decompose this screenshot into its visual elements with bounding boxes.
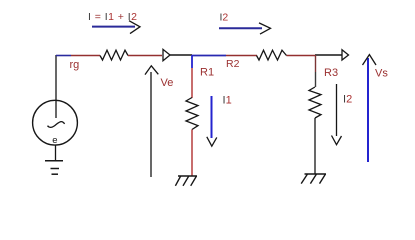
wire (node B rightwards, black) — [315, 54, 342, 56]
current arrow I — [92, 21, 140, 34]
resistor R2 — [257, 50, 287, 60]
ground (below R3, hatched) — [301, 174, 326, 184]
current direction triangle marker — [163, 49, 170, 60]
wire (triangle to node A, black) — [170, 54, 192, 56]
svg-text:rg: rg — [70, 59, 80, 71]
wire (R1 branch red, upper) — [191, 68, 193, 98]
ground (below source) — [45, 161, 63, 174]
svg-text:Ve: Ve — [161, 77, 174, 89]
current arrow I2 (top) — [219, 23, 271, 34]
svg-text:Vs: Vs — [375, 68, 388, 80]
svg-text:I1: I1 — [223, 95, 232, 107]
wire (R2 to node B, red) — [287, 55, 316, 57]
svg-text:R2: R2 — [226, 58, 240, 70]
svg-text:e: e — [52, 135, 57, 146]
wire (corner blue segment) — [56, 55, 71, 57]
wire (rg to triangle, red) — [128, 55, 162, 57]
ground (below R1, hatched) — [175, 176, 197, 186]
current arrow I1 — [207, 96, 217, 146]
voltage arrow Vs — [363, 55, 377, 162]
wire (R1 branch blue segment) — [191, 55, 193, 68]
wire (to R2, red) — [226, 55, 257, 57]
wire (R1 branch red, lower) — [191, 130, 193, 177]
resistor R1 — [186, 98, 198, 130]
svg-text:I2: I2 — [343, 94, 352, 106]
wire (source top to corner, vertical) — [55, 55, 57, 118]
svg-text:I2: I2 — [220, 12, 229, 24]
wire (source bottom) — [55, 145, 57, 160]
voltage source e — [33, 100, 78, 146]
wire (R3 branch red, upper) — [315, 55, 317, 72]
current arrow I2 (right) — [332, 84, 342, 145]
svg-text:R1: R1 — [200, 67, 214, 79]
wire (to rg, red) — [71, 55, 100, 57]
resistor R3 — [309, 87, 321, 118]
voltage arrow Ve — [145, 66, 158, 177]
svg-text:R3: R3 — [324, 67, 338, 79]
current direction triangle marker 2 — [342, 50, 349, 60]
wire (R3 branch black, lower) — [314, 118, 316, 174]
resistor rg — [100, 50, 128, 60]
node A wire (blue, rightwards) — [192, 55, 226, 57]
